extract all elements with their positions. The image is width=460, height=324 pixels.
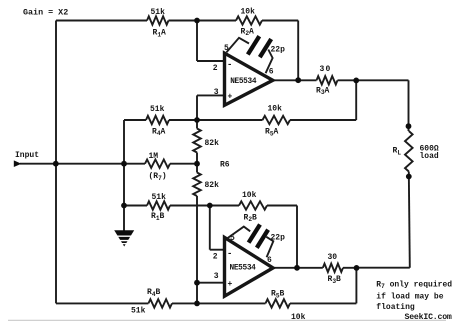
svg-text:51k: 51k [131, 307, 146, 316]
svg-text:22p: 22p [271, 233, 286, 242]
svg-text:Input: Input [15, 151, 39, 160]
svg-text:load: load [420, 152, 439, 161]
svg-text:R7 only required: R7 only required [376, 280, 452, 290]
svg-text:Gain = X2: Gain = X2 [23, 8, 68, 18]
svg-text:30: 30 [320, 65, 332, 74]
svg-text:-: - [227, 60, 232, 70]
svg-text:82k: 82k [205, 139, 220, 148]
svg-text:51k: 51k [150, 105, 165, 114]
svg-text:3: 3 [214, 272, 219, 281]
svg-text:2: 2 [213, 253, 218, 262]
svg-text:floating: floating [376, 303, 415, 312]
svg-text:if load may be: if load may be [376, 292, 443, 301]
svg-text:10k: 10k [241, 7, 256, 16]
svg-text:82k: 82k [205, 181, 220, 190]
svg-text:1M: 1M [149, 152, 159, 161]
svg-text:10k: 10k [268, 105, 283, 114]
svg-text:22p: 22p [271, 46, 286, 55]
svg-text:R6: R6 [220, 161, 230, 170]
svg-text:30: 30 [328, 253, 338, 262]
svg-text:-: - [227, 249, 232, 259]
svg-text:NE5534: NE5534 [230, 265, 257, 273]
svg-text:3: 3 [214, 88, 219, 97]
svg-text:+: + [228, 280, 233, 289]
svg-text:5: 5 [230, 234, 235, 243]
svg-text:+: + [228, 93, 233, 102]
svg-text:5: 5 [224, 44, 229, 53]
svg-text:51k: 51k [151, 8, 166, 17]
svg-text:2: 2 [213, 64, 218, 73]
svg-text:51k: 51k [152, 193, 167, 202]
svg-text:10k: 10k [242, 191, 257, 200]
svg-text:6: 6 [269, 67, 274, 76]
svg-text:6: 6 [267, 256, 272, 265]
svg-text:(R7): (R7) [149, 172, 167, 182]
svg-text:NE5534: NE5534 [230, 78, 257, 86]
